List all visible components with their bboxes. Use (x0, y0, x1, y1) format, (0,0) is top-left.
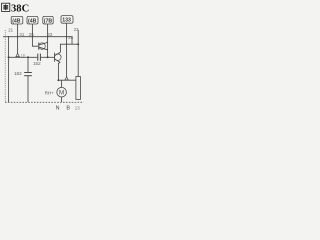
capacitor C2 (shunt) (24, 73, 32, 76)
svg-text:B: B (66, 106, 70, 112)
junction midwire-branch (27, 56, 29, 58)
svg-text:M: M (59, 90, 64, 97)
contact flare B4 (65, 77, 68, 80)
svg-text:13: 13 (75, 105, 80, 110)
Q2 emitter wire (58, 62, 60, 80)
bottom dashed rail (5, 101, 84, 103)
svg-text:(4B: (4B (28, 18, 37, 24)
svg-text:133: 133 (62, 18, 71, 24)
junction emitter-bottom wire (57, 79, 59, 81)
mid wire (9, 56, 38, 58)
Q2 collector wire (60, 44, 78, 52)
resistor R (right) (76, 77, 81, 100)
title glyph 圖 (drawn) (2, 3, 10, 11)
wire from B1 (17, 24, 19, 53)
svg-text:182: 182 (14, 71, 22, 76)
svg-text:RH+: RH+ (45, 90, 55, 95)
svg-text:24: 24 (68, 35, 73, 40)
transistor Q1 (39, 42, 48, 49)
box B2 (27, 16, 38, 24)
junction left-rail (8, 36, 10, 38)
capacitor C1 (series) (38, 54, 41, 61)
junction B2-rail (32, 36, 34, 38)
svg-text:N: N (56, 106, 60, 112)
left wire (8, 37, 10, 102)
right line (77, 30, 79, 77)
box B4 (61, 16, 73, 24)
left dotted border (4, 30, 6, 102)
junction collector-B4 wire (66, 43, 68, 45)
wire from B3 (47, 24, 49, 57)
junction B3-rail (47, 36, 49, 38)
rail stub to right (71, 37, 73, 45)
box B3 (43, 16, 53, 24)
junction left-mid (8, 56, 10, 58)
junction B4-rail (66, 36, 68, 38)
svg-text:(7B: (7B (44, 18, 53, 24)
svg-text:21: 21 (8, 27, 13, 32)
svg-text:(4B: (4B (12, 18, 21, 24)
junction B1-rail (17, 36, 19, 38)
wire C2 to bottom (27, 76, 29, 102)
wire from B2 (32, 24, 38, 46)
svg-text:1B: 1B (21, 53, 26, 57)
branch wire to C2 (27, 57, 29, 72)
svg-text:38C: 38C (11, 4, 29, 15)
junction B3-midwire (47, 56, 49, 58)
lower horizontal wire (58, 79, 76, 81)
wire from B4 (66, 23, 68, 77)
transistor Q2 (55, 52, 62, 62)
box B1 (11, 16, 23, 24)
meter V (57, 80, 67, 102)
junction collector-right line (77, 43, 79, 45)
top rail (3, 36, 72, 38)
contact flare B1 (16, 53, 19, 56)
svg-text:152: 152 (33, 61, 41, 66)
